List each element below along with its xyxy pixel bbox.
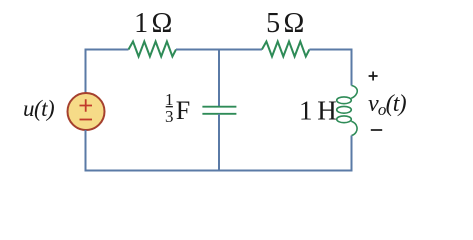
svg-text:u(t): u(t) (23, 96, 54, 121)
wire bottom horizontal (85, 170, 353, 172)
svg-text:vo(t): vo(t) (368, 91, 407, 119)
voltage source U circle (68, 93, 105, 130)
inductor L1 coil (337, 86, 358, 136)
voltage source minus sign (80, 119, 93, 121)
output voltage plus sign (369, 72, 378, 81)
wire right vertical upper (351, 49, 353, 86)
svg-text:1 Ω: 1 Ω (134, 8, 171, 39)
wire middle vertical upper (218, 49, 220, 107)
svg-text:5 Ω: 5 Ω (266, 8, 303, 39)
output voltage minus sign (371, 129, 382, 131)
svg-text:F: F (176, 96, 190, 125)
wire left vertical upper (85, 49, 87, 94)
wire middle vertical lower (218, 114, 220, 172)
capacitor C1 bottom plate (202, 113, 236, 115)
wire top-left horizontal (86, 49, 129, 51)
wire top-middle horizontal (176, 49, 262, 51)
wire top-right horizontal (309, 49, 351, 51)
wire right vertical lower (351, 136, 353, 172)
capacitor value label 1/3 F (165, 90, 190, 126)
svg-text:3: 3 (165, 107, 174, 126)
wire left vertical lower (85, 130, 87, 172)
resistor R2 zigzag (262, 42, 310, 57)
voltage source plus sign (80, 99, 93, 112)
capacitor C1 top plate (202, 106, 236, 108)
svg-text:1 H: 1 H (299, 96, 336, 126)
resistor R1 zigzag (129, 42, 177, 57)
